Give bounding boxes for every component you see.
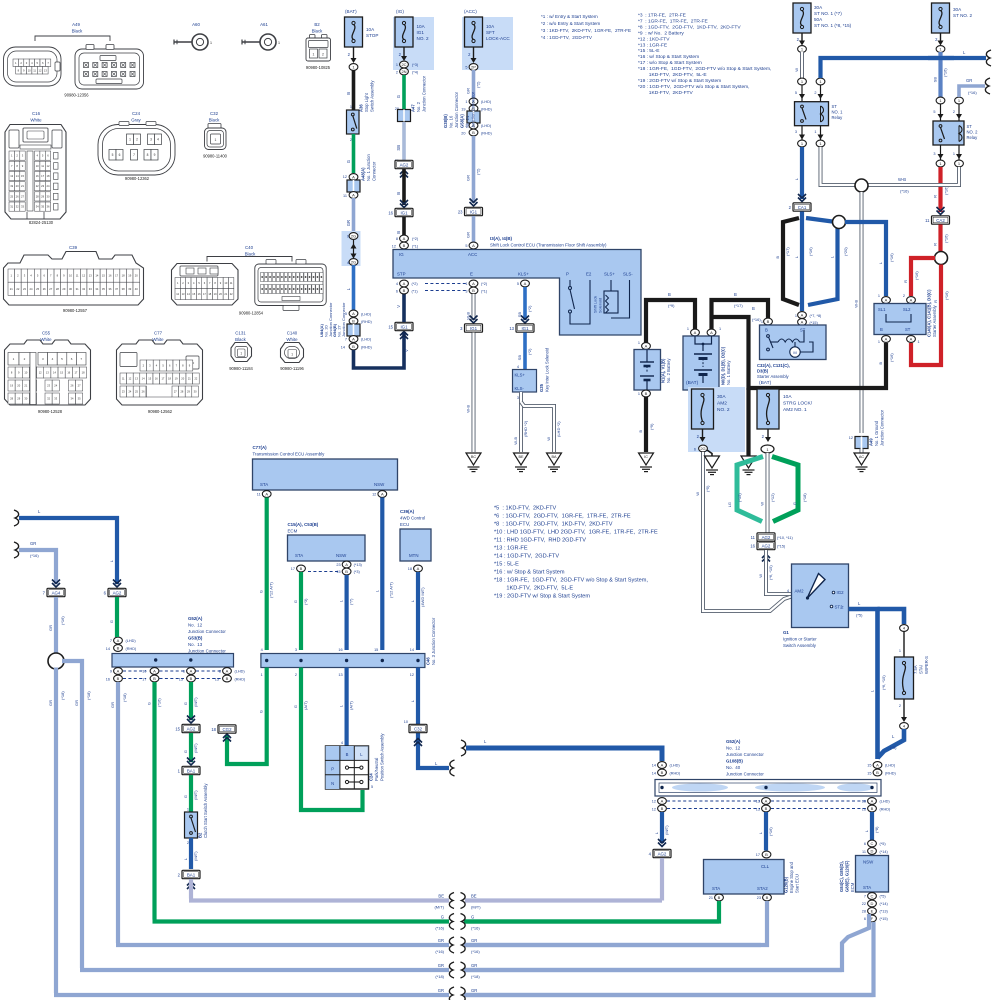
svg-text:90980-10825: 90980-10825 (306, 65, 331, 70)
svg-text:(*16): (*16) (900, 189, 909, 194)
svg-text:6: 6 (694, 448, 696, 452)
svg-text:16: 16 (388, 210, 393, 215)
svg-text:IG2: IG2 (837, 590, 845, 595)
wire GR to G38/G58 (472, 70, 476, 99)
svg-text:G: G (346, 160, 351, 163)
svg-text:(*18): (*18) (471, 974, 480, 979)
svg-text:32: 32 (82, 287, 85, 291)
fuse 30A ST NO.1 (793, 3, 811, 33)
svg-text:90980-12356: 90980-12356 (64, 93, 89, 98)
svg-text:(*2): (*2) (481, 282, 488, 286)
svg-text:A61: A61 (260, 22, 268, 27)
svg-text:A: A (117, 669, 120, 674)
svg-text:11: 11 (925, 218, 930, 223)
svg-text:15: 15 (867, 764, 871, 768)
svg-text:*13 : 1GR-FE: *13 : 1GR-FE (638, 42, 668, 48)
svg-text:6: 6 (864, 842, 866, 846)
svg-text:*19 : 2GD-FTV w/ Stop & Start: *19 : 2GD-FTV w/ Stop & Start System (494, 594, 590, 600)
svg-text:24: 24 (47, 184, 50, 188)
svg-text:AG2: AG2 (658, 851, 667, 856)
svg-text:B: B (765, 806, 768, 811)
svg-text:C15(A), C53(B): C15(A), C53(B) (288, 522, 319, 527)
svg-text:(*8): (*8) (874, 826, 879, 833)
svg-text:Junction Connector: Junction Connector (726, 752, 764, 757)
svg-text:B: B (117, 676, 120, 681)
svg-text:ST NO. 1 (*7): ST NO. 1 (*7) (814, 11, 842, 16)
svg-text:W: W (794, 68, 799, 72)
svg-text:2: 2 (322, 53, 324, 57)
wire L pin16 down to ECM (870, 812, 874, 840)
wire bottom horizontal (54, 993, 449, 997)
svg-text:No. 2: No. 2 (416, 101, 421, 112)
svg-text:(*5): (*5) (880, 895, 887, 899)
svg-text:*16 : w/ Stop & Start System: *16 : w/ Stop & Start System (494, 570, 565, 576)
ground BE (514, 453, 529, 465)
svg-text:G58(A): G58(A) (460, 114, 465, 128)
svg-text:Junction Connector: Junction Connector (341, 302, 346, 337)
ground D6 (746, 388, 750, 456)
svg-text:A: A (403, 281, 406, 286)
svg-text:28: 28 (862, 910, 866, 914)
wire L pin12 down to AG2 tag then BE (660, 812, 664, 843)
svg-text:No. 1 Battery: No. 1 Battery (726, 360, 731, 385)
svg-text:(LHD): (LHD) (361, 313, 372, 317)
svg-text:A: A (417, 566, 420, 571)
ground BA (547, 453, 562, 465)
wire L MTN down (416, 572, 420, 650)
wire bottom horizontal (80, 968, 449, 972)
svg-text:5: 5 (517, 282, 519, 286)
svg-text:7: 7 (133, 153, 135, 157)
svg-text:G: G (259, 710, 264, 713)
svg-text:(*16): (*16) (968, 90, 977, 95)
svg-text:13: 13 (44, 68, 47, 72)
svg-text:GR: GR (471, 938, 477, 943)
wire L down to CA1 (800, 147, 804, 199)
svg-text:28: 28 (36, 194, 39, 198)
wire L NSW down (345, 575, 349, 650)
svg-text:W-B: W-B (466, 405, 471, 413)
wire GR branch down to GR(+19) line (54, 668, 58, 994)
svg-text:AG2: AG2 (400, 162, 409, 167)
svg-text:KLS+: KLS+ (518, 272, 529, 277)
svg-text:*8 : 1GD-FTV, 2GD-FTV, 1KD-: *8 : 1GD-FTV, 2GD-FTV, 1KD-FTV, 2KD-FTV (638, 24, 741, 30)
svg-text:11: 11 (76, 274, 79, 278)
svg-text:*9 : w/ No. 2 Battery: *9 : w/ No. 2 Battery (638, 30, 684, 36)
svg-text:16: 16 (106, 678, 110, 682)
svg-text:SL2: SL2 (903, 307, 911, 312)
connector 2G panel (342, 231, 361, 266)
svg-text:SB: SB (933, 77, 938, 83)
svg-text:4: 4 (517, 365, 519, 369)
svg-text:R: R (933, 195, 938, 198)
svg-text:CA2: CA2 (936, 218, 945, 223)
svg-text:STA: STA (295, 553, 303, 558)
svg-text:(*1): (*1) (412, 290, 419, 294)
svg-text:4: 4 (341, 741, 343, 745)
svg-text:*10 : LHD 1GD-FTV, LHD 2GD-FT: *10 : LHD 1GD-FTV, LHD 2GD-FTV, 1GR-FE, … (494, 530, 658, 536)
svg-text:KLS+: KLS+ (515, 373, 526, 378)
svg-text:(M/T): (M/T) (193, 851, 198, 861)
svg-text:BA1: BA1 (187, 768, 196, 773)
wire G from bar pin10 down to G line (152, 682, 156, 920)
svg-text:AM2: AM2 (717, 401, 727, 407)
svg-text:*11 : RHD 1GD-FTV, RHD 2GD-FT: *11 : RHD 1GD-FTV, RHD 2GD-FTV (494, 538, 586, 544)
svg-text:A: A (403, 236, 406, 241)
svg-text:G108(B): G108(B) (726, 759, 743, 764)
svg-text:Black: Black (72, 29, 84, 34)
svg-text:D: D (871, 901, 874, 906)
svg-text:13: 13 (10, 174, 13, 178)
svg-text:C77(A): C77(A) (253, 445, 268, 450)
svg-text:*15 : 5L-E: *15 : 5L-E (638, 48, 660, 54)
svg-text:NSW: NSW (374, 482, 385, 487)
svg-text:12: 12 (652, 800, 656, 804)
svg-text:1: 1 (638, 392, 640, 396)
svg-text:34: 34 (36, 205, 39, 209)
svg-text:C32(A), C131(C),: C32(A), C131(C), (757, 363, 790, 368)
svg-text:C46: C46 (426, 657, 431, 665)
svg-text:*5 : 1KD-FTV, 2KD-FTV: *5 : 1KD-FTV, 2KD-FTV (494, 506, 557, 512)
svg-text:(*14): (*14) (880, 850, 889, 854)
svg-text:(*16): (*16) (435, 949, 444, 954)
svg-text:A: A (524, 281, 527, 286)
svg-text:Starter Assembly: Starter Assembly (932, 304, 937, 337)
svg-text:2: 2 (350, 138, 352, 142)
svg-text:Shift Lock Control ECU (Transm: Shift Lock Control ECU (Transmission Flo… (490, 243, 607, 248)
svg-text:10: 10 (28, 68, 31, 72)
wire B black (402, 169, 406, 205)
svg-text:A: A (694, 330, 697, 335)
svg-text:90980-12854: 90980-12854 (239, 311, 264, 316)
svg-text:W-B: W-B (898, 177, 906, 182)
svg-text:A: A (661, 799, 664, 804)
svg-text:Junction Connector: Junction Connector (188, 629, 226, 634)
svg-text:(*5): (*5) (705, 485, 710, 492)
wire L from ST2 right and down (849, 609, 878, 759)
svg-text:15: 15 (175, 726, 180, 731)
svg-text:23: 23 (23, 287, 26, 291)
svg-text:6: 6 (119, 153, 121, 157)
svg-text:*13 : 1GR-FE: *13 : 1GR-FE (494, 546, 528, 552)
ECM G84(C), G85(D), G88(E), G120(F) (868, 840, 877, 847)
svg-text:E: E (871, 909, 874, 914)
svg-text:SL1: SL1 (878, 307, 886, 312)
svg-text:21: 21 (709, 896, 713, 900)
svg-text:(BAT): (BAT) (686, 380, 699, 386)
break and thick L wire to G52/G108 (461, 740, 466, 756)
wire L from break to AG2 tag (14, 510, 19, 526)
svg-text:IG1: IG1 (417, 30, 425, 35)
wire V dark navy loop to STP (354, 332, 405, 368)
svg-text:No. 2 Battery: No. 2 Battery (666, 358, 671, 383)
svg-text:A49: A49 (869, 438, 874, 446)
svg-text:9: 9 (154, 153, 156, 157)
svg-text:1: 1 (953, 152, 955, 156)
svg-text:(*9): (*9) (649, 423, 654, 430)
svg-text:(*16): (*16) (30, 553, 39, 558)
svg-text:(*16): (*16) (752, 317, 761, 322)
svg-text:GR: GR (48, 625, 53, 631)
wires W / LG / G fanning down (766, 453, 770, 533)
svg-text:B: B (345, 569, 348, 574)
svg-text:36: 36 (108, 287, 111, 291)
svg-text:(LHD): (LHD) (880, 800, 891, 804)
svg-text:(*16): (*16) (943, 68, 948, 77)
svg-text:N0(D), D1(B), D2(C): N0(D), D1(B), D2(C) (721, 346, 726, 385)
svg-text:*3 : 1KD-FTV, 2KD-FTV, 1GR-F: *3 : 1KD-FTV, 2KD-FTV, 1GR-FE, 2TR-FE (541, 28, 631, 33)
svg-text:D: D (871, 849, 874, 854)
svg-text:2N: 2N (401, 69, 406, 74)
svg-text:STA2: STA2 (757, 886, 768, 891)
svg-text:B: B (645, 391, 648, 396)
svg-text:G: G (109, 620, 114, 623)
svg-text:SB: SB (396, 145, 401, 151)
svg-text:1: 1 (240, 352, 242, 356)
wire B to ground (644, 397, 648, 452)
svg-text:17: 17 (41, 174, 44, 178)
svg-text:B: B (300, 566, 303, 571)
svg-text:G1: G1 (783, 630, 789, 635)
svg-text:(LHD): (LHD) (126, 639, 137, 643)
svg-text:NO. 1: NO. 1 (832, 110, 844, 115)
svg-text:2: 2 (396, 71, 398, 75)
svg-text:B: B (876, 770, 879, 775)
svg-text:90980-11196: 90980-11196 (280, 366, 304, 371)
svg-text:WIPER-S: WIPER-S (924, 656, 929, 674)
svg-text:ECU: ECU (400, 522, 409, 527)
svg-text:31: 31 (10, 205, 13, 209)
svg-text:4: 4 (347, 261, 349, 265)
ground D4 under AM2 (705, 456, 720, 468)
wire GR from break to AG4 tag (14, 542, 19, 558)
svg-text:(M/T): (M/T) (471, 905, 481, 910)
svg-text:*2 : w/o Entry & Start System: *2 : w/o Entry & Start System (541, 21, 600, 26)
svg-text:BC: BC (471, 455, 477, 459)
svg-text:W-B: W-B (513, 437, 518, 445)
svg-text:A: A (352, 337, 355, 342)
svg-text:A36: A36 (359, 104, 364, 112)
svg-text:A: A (910, 298, 913, 303)
svg-text:B: B (661, 806, 664, 811)
svg-text:No. 40: No. 40 (726, 765, 741, 770)
svg-text:10A: 10A (366, 27, 375, 32)
svg-text:A: A (801, 320, 804, 325)
wire W-B from E to ground (472, 294, 476, 320)
svg-text:(*15): (*15) (737, 493, 742, 502)
svg-text:G: G (183, 702, 188, 705)
svg-text:Stop Light: Stop Light (364, 92, 369, 112)
svg-text:NSW: NSW (336, 553, 347, 558)
svg-text:GR: GR (466, 175, 471, 181)
svg-text:1: 1 (795, 314, 797, 318)
svg-text:5: 5 (112, 153, 114, 157)
svg-text:AM2 NO. 1: AM2 NO. 1 (783, 407, 807, 413)
svg-text:B: B (766, 895, 769, 900)
svg-text:(*5): (*5) (880, 842, 887, 846)
svg-text:1: 1 (465, 100, 467, 104)
svg-text:(*18): (*18) (802, 493, 807, 502)
svg-text:E: E (470, 272, 473, 277)
svg-text:M: M (793, 350, 796, 355)
svg-text:10: 10 (404, 720, 408, 724)
svg-text:29: 29 (62, 287, 65, 291)
svg-text:(*16): (*16) (944, 291, 949, 300)
svg-text:G120(B): G120(B) (784, 876, 789, 893)
svg-text:(RHD): (RHD) (481, 132, 492, 136)
svg-text:G: G (293, 705, 298, 708)
svg-text:C24: C24 (369, 773, 374, 781)
svg-text:C140(A), C141(B), D3(C): C140(A), C141(B), D3(C) (927, 289, 932, 337)
svg-text:(*16): (*16) (889, 353, 894, 362)
svg-text:14: 14 (652, 764, 656, 768)
svg-text:(*6, *15): (*6, *15) (881, 675, 886, 690)
svg-text:38: 38 (122, 287, 125, 291)
svg-text:Relay: Relay (832, 115, 844, 120)
svg-text:B: B (117, 646, 120, 651)
svg-text:4: 4 (261, 648, 263, 652)
svg-text:CLL: CLL (761, 864, 770, 869)
svg-text:1KD-FTV, 2KD-FTV, 5L-E: 1KD-FTV, 2KD-FTV, 5L-E (494, 586, 573, 592)
svg-text:2G: 2G (351, 260, 356, 265)
svg-text:Starter Assembly: Starter Assembly (757, 374, 790, 379)
svg-text:(BAT): (BAT) (759, 380, 772, 386)
svg-text:(*17): (*17) (734, 303, 743, 308)
svg-text:Switch Assembly: Switch Assembly (370, 80, 375, 112)
svg-text:*19 : 2GD-FTV w/ Stop & Start: *19 : 2GD-FTV w/ Stop & Start System (638, 78, 721, 84)
svg-text:GR: GR (74, 700, 79, 706)
svg-text:10: 10 (36, 164, 39, 168)
svg-text:No. 1 Ground: No. 1 Ground (874, 420, 879, 446)
wire GR from pin F down to GR(+19) line (464, 922, 874, 995)
wire GR from bar pin9 down to GR(+16) line (116, 682, 120, 943)
svg-text:(*3): (*3) (303, 598, 308, 605)
switch G1 Ignition or Starter Switch Assembly (792, 564, 849, 628)
svg-text:A: A (117, 638, 120, 643)
svg-text:3: 3 (295, 648, 297, 652)
svg-text:(*9): (*9) (668, 303, 675, 308)
wire B black from starter2 B to strg fuse line (749, 343, 887, 388)
svg-text:(M/T): (M/T) (193, 743, 198, 753)
svg-text:No. 1 Junction: No. 1 Junction (366, 154, 371, 181)
svg-text:(*16): (*16) (157, 698, 162, 707)
svg-text:No. 16: No. 16 (449, 115, 454, 128)
svg-text:C77: C77 (154, 331, 163, 336)
svg-text:22: 22 (36, 184, 39, 188)
svg-text:KLS-: KLS- (515, 386, 525, 391)
svg-text:1: 1 (129, 137, 131, 141)
svg-text:5: 5 (933, 110, 935, 114)
svg-text:90980-12362: 90980-12362 (125, 176, 150, 181)
svg-text:IG1: IG1 (521, 326, 529, 331)
svg-text:BE: BE (471, 893, 477, 898)
wire W-B down to A49 ground junction (860, 192, 864, 433)
svg-text:(*2): (*2) (527, 348, 532, 355)
svg-text:A: A (801, 313, 804, 318)
svg-text:2: 2 (136, 137, 138, 141)
svg-text:W: W (695, 492, 700, 496)
svg-text:B2: B2 (198, 832, 203, 838)
svg-text:(ACC): (ACC) (464, 9, 477, 14)
svg-text:R: R (933, 243, 938, 246)
svg-text:A: A (226, 669, 229, 674)
svg-text:(*7, *8): (*7, *8) (810, 314, 823, 318)
svg-text:Ignition or Starter: Ignition or Starter (783, 637, 817, 642)
svg-text:(RHD): (RHD) (885, 772, 896, 776)
svg-text:1: 1 (396, 63, 398, 67)
svg-text:(*16): (*16) (471, 949, 480, 954)
svg-text:1: 1 (313, 53, 315, 57)
svg-text:90980-11184: 90980-11184 (229, 366, 253, 371)
wire GR from STA2 to GR line (464, 901, 767, 945)
wire B from No2 batt to No1 batt (646, 300, 695, 343)
ground AC (854, 453, 869, 465)
svg-text:NSW: NSW (863, 860, 874, 865)
svg-text:P: P (566, 272, 569, 277)
svg-text:C55: C55 (42, 331, 51, 336)
svg-text:A48(A): A48(A) (361, 167, 366, 181)
svg-text:27: 27 (49, 287, 52, 291)
svg-text:17: 17 (756, 853, 760, 857)
svg-text:30A: 30A (717, 394, 726, 400)
svg-text:2P: 2P (471, 65, 476, 70)
svg-text:GR: GR (438, 963, 444, 968)
svg-text:5: 5 (465, 66, 467, 70)
svg-text:B: B (472, 288, 475, 293)
svg-text:90980-12528: 90980-12528 (38, 409, 63, 414)
svg-text:Relay: Relay (967, 135, 979, 140)
svg-text:21: 21 (10, 287, 13, 291)
svg-text:No. 12: No. 12 (726, 746, 741, 751)
svg-text:G35: G35 (539, 383, 544, 392)
svg-text:(M/T): (M/T) (434, 905, 444, 910)
svg-text:Engine Stop and: Engine Stop and (789, 861, 794, 893)
svg-text:16: 16 (338, 648, 342, 652)
svg-text:AG4: AG4 (52, 590, 61, 595)
svg-text:E2: E2 (586, 272, 592, 277)
svg-text:(*5): (*5) (890, 745, 897, 750)
svg-text:White: White (152, 337, 164, 342)
svg-text:2: 2 (899, 704, 901, 708)
svg-text:No. 3 Junction Connector: No. 3 Junction Connector (431, 617, 436, 665)
wire L crossing redraw (928, 56, 954, 60)
svg-text:IG: IG (399, 252, 404, 257)
svg-text:(*6, *15): (*6, *15) (768, 565, 773, 580)
svg-text:10A: 10A (783, 394, 792, 400)
svg-text:1: 1 (215, 138, 217, 142)
svg-text:A: A (765, 799, 768, 804)
svg-text:(*2): (*2) (412, 237, 419, 241)
svg-text:2: 2 (953, 110, 955, 114)
svg-text:7: 7 (345, 338, 347, 342)
svg-text:Park/Neutral: Park/Neutral (374, 758, 379, 781)
svg-text:4: 4 (787, 589, 789, 593)
wire G from STA to G line (464, 901, 719, 922)
svg-text:ST: ST (905, 327, 911, 332)
svg-text:1: 1 (878, 294, 880, 298)
svg-text:(*3): (*3) (412, 63, 419, 67)
svg-text:A: A (871, 799, 874, 804)
svg-text:C24: C24 (132, 111, 141, 116)
svg-text:36: 36 (47, 205, 50, 209)
svg-text:Black: Black (245, 252, 257, 257)
svg-text:(*18): (*18) (122, 693, 127, 702)
svg-text:C: C (871, 841, 874, 846)
svg-text:R: R (933, 300, 938, 303)
svg-text:C39(A): C39(A) (400, 509, 415, 514)
svg-text:B: B (880, 327, 883, 332)
svg-text:A: A (472, 243, 475, 248)
